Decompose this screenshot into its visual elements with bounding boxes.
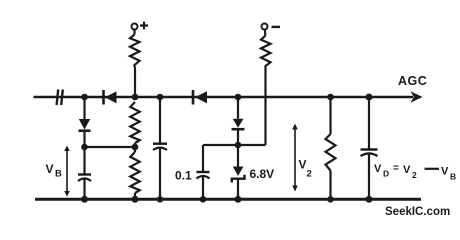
svg-text:V: V xyxy=(441,166,449,178)
svg-text:2: 2 xyxy=(412,170,417,180)
svg-text:V: V xyxy=(299,158,307,172)
svg-text:B: B xyxy=(450,172,456,182)
svg-text:AGC: AGC xyxy=(398,74,427,88)
svg-text:6.8V: 6.8V xyxy=(250,167,275,181)
svg-text:V: V xyxy=(403,164,411,176)
svg-text:V: V xyxy=(374,163,382,175)
svg-text:V: V xyxy=(46,162,54,176)
svg-text:B: B xyxy=(55,169,62,180)
svg-text:D: D xyxy=(383,169,389,179)
svg-text:SeekIC.com: SeekIC.com xyxy=(385,206,450,218)
svg-text:2: 2 xyxy=(307,169,312,180)
svg-text:=: = xyxy=(393,163,399,174)
svg-text:0.1: 0.1 xyxy=(175,169,192,183)
